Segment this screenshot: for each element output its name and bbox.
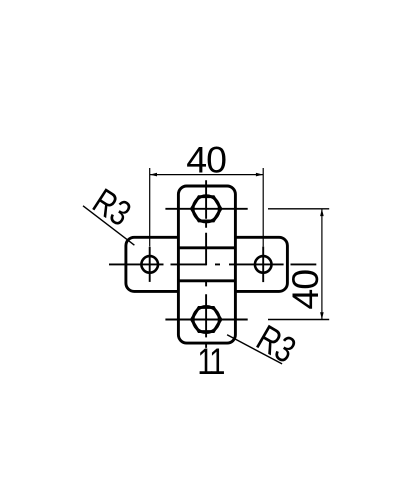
- outline: vertical plate (rounded rect): [178, 186, 235, 343]
- edge line: horizontal plate inner top edge across vertical plate: [178, 246, 235, 249]
- center cross: left hole vertical: [149, 247, 151, 282]
- arrowhead right of top dim: [256, 173, 263, 177]
- extension line: top dim right (from right hole): [262, 168, 264, 247]
- svg-text:40: 40: [186, 138, 226, 180]
- center cross: right hole vertical: [262, 247, 264, 283]
- hex hole top: circle: [193, 196, 219, 222]
- center line: main horizontal axis through side holes (dash-dot): [109, 263, 316, 265]
- extension line: right dim from bottom hex center: [268, 319, 329, 321]
- hex hole bottom: circle: [193, 306, 219, 332]
- hole right: circle: [255, 256, 272, 273]
- svg-text:40: 40: [284, 270, 326, 310]
- center line: top hex hole horizontal: [165, 208, 247, 210]
- extension line: top dim left (from left hole): [149, 168, 151, 247]
- leader line: R3 top-left: [83, 206, 134, 245]
- svg-text:11: 11: [197, 342, 224, 383]
- hex hole top: hexagon: [192, 197, 221, 221]
- center line: bottom hex hole horizontal: [165, 319, 247, 321]
- hex hole bottom: hexagon: [192, 307, 221, 331]
- edge line: horizontal plate inner bottom edge across vertical plate: [178, 279, 235, 282]
- arrowhead bottom of right dim: [320, 312, 324, 319]
- hole left: circle: [141, 256, 158, 273]
- outline: horizontal plate (edges hidden behind vertical plate): [126, 237, 288, 291]
- center line: main vertical axis (dash-dot): [205, 180, 207, 348]
- arrowhead left of top dim: [150, 173, 157, 177]
- leader line: R3 bottom-right: [227, 335, 282, 364]
- extension line: right dim from top hex center: [268, 208, 329, 210]
- dimension line: top 40: [150, 174, 264, 176]
- dimension line: right 40: [321, 209, 323, 320]
- arrowhead top of right dim: [320, 209, 324, 216]
